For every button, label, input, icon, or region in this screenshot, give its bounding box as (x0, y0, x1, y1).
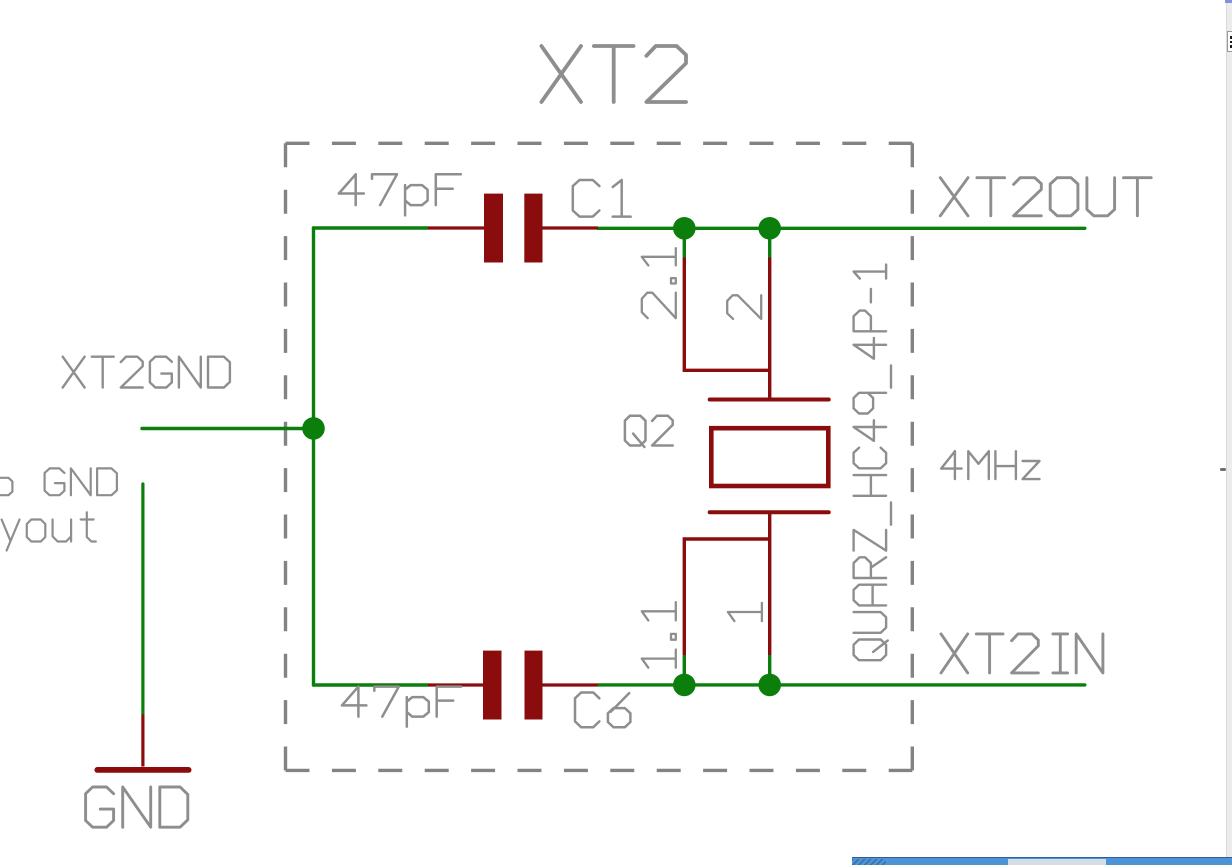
crystal Q2 pin 2.1 lead (684, 258, 769, 371)
junction bottom right (758, 674, 781, 697)
wire bottom segment to C6 (314, 683, 429, 686)
capacitor C1 lead right (543, 226, 599, 229)
name C6 (575, 693, 630, 728)
module frame XT2 (dashed box) (286, 143, 913, 770)
wire stub pin2.1 (683, 228, 686, 258)
net label XT2GND (63, 357, 230, 388)
crystal Q2 pin 1.1 lead (684, 539, 769, 655)
wire left vertical (312, 228, 315, 685)
net label XT2IN (941, 634, 1103, 673)
value 47pF (C6) (342, 687, 461, 727)
right edge blue sliver top (1225, 0, 1232, 3)
wire stub pin1.1 (683, 655, 686, 685)
pin label 2 (727, 295, 761, 319)
bottom bar light section (1008, 859, 1106, 865)
ground symbol bar (97, 767, 188, 773)
wire stub pin2 (768, 228, 771, 258)
capacitor C1 lead left (428, 226, 484, 229)
capacitor C1 plates (484, 194, 543, 263)
wire GND branch (141, 484, 144, 715)
crystal Q2 body (711, 428, 828, 486)
wire XT2IN (598, 683, 1085, 686)
value 47pF (C1) (339, 174, 461, 215)
pin label 1.1 (642, 602, 676, 668)
right edge small dash (1220, 468, 1226, 471)
name Q2 (625, 416, 673, 447)
note line 2 (layout) (2, 512, 96, 550)
right edge button (1227, 31, 1232, 52)
right window edge strip (1226, 0, 1232, 865)
junction top right (758, 217, 781, 240)
junction XT2GND (302, 417, 325, 440)
junction top left (673, 217, 696, 240)
note line 1 (to GND) (0, 468, 117, 495)
crystal Q2 pin 2 lead (768, 258, 771, 400)
junction bottom left (673, 674, 696, 697)
ground symbol stem (141, 715, 144, 767)
wire stub pin1 (768, 655, 771, 685)
part QUARZ_HC49_4P-1 (854, 265, 891, 661)
title XT2 (541, 46, 686, 102)
wire XT2GND horizontal (142, 427, 314, 430)
capacitor C6 plates (483, 651, 543, 720)
pin label 2.1 (642, 248, 676, 318)
wire XT2OUT (598, 227, 1085, 230)
capacitor C6 lead left (428, 683, 483, 686)
capacitor C6 lead right (543, 683, 598, 686)
ground label GND (86, 787, 188, 827)
bottom window bar (852, 857, 1232, 865)
value 4MHz (941, 451, 1039, 479)
bottom bar hatched section (852, 859, 886, 865)
pin label 1 (728, 603, 762, 621)
crystal Q2 bottom plate (710, 510, 829, 514)
crystal Q2 pin 1 lead (768, 512, 771, 655)
name C1 (573, 180, 631, 217)
net label XT2OUT (940, 178, 1151, 216)
wire top segment to C1 (314, 226, 429, 229)
crystal Q2 top plate (710, 398, 829, 402)
